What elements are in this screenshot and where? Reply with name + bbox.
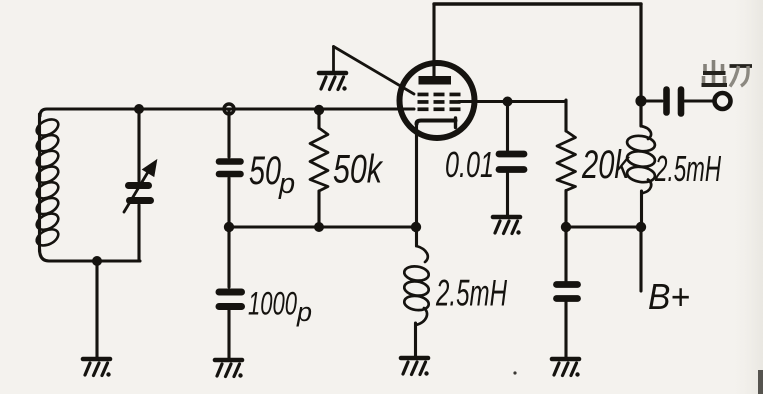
inductor L3 cathode choke 2.5mH bbox=[403, 246, 429, 356]
node: rail / C1 (ring) bbox=[224, 104, 234, 114]
label 50p bbox=[249, 149, 295, 200]
svg-text:2.5mH: 2.5mH bbox=[435, 273, 507, 314]
label 出力 (output) bbox=[702, 60, 753, 87]
wire: right bus bbox=[566, 225, 641, 228]
node: tank ground bbox=[92, 256, 102, 266]
wire: cathode lead bbox=[415, 122, 418, 246]
tube V1 plate bbox=[419, 76, 452, 85]
node: right bus / C4 bbox=[561, 222, 571, 232]
wire: suppressor diagonal to ground bbox=[334, 47, 415, 95]
capacitor C2 1000p stem top bbox=[227, 227, 230, 287]
variable capacitor VC1 arrow bbox=[124, 161, 156, 212]
ground: suppressor bbox=[319, 73, 347, 91]
inductor L1 tank coil bbox=[34, 114, 61, 251]
inductor L2 plate choke 2.5mH bbox=[626, 126, 656, 227]
variable capacitor VC1 plates bbox=[129, 186, 151, 201]
tube V1 grids bbox=[418, 93, 461, 112]
resistor R2 20k bbox=[557, 100, 576, 227]
svg-text:B+: B+ bbox=[648, 276, 690, 317]
variable capacitor VC1 stem top bbox=[137, 109, 140, 181]
capacitor C4 bypass stem top bbox=[564, 227, 567, 281]
ground: cathode choke bbox=[401, 358, 429, 376]
wire: B+ top rail bbox=[434, 2, 641, 5]
node: bus / cathode bbox=[411, 222, 421, 232]
wire: grid rail (top-left horizontal) bbox=[40, 109, 414, 116]
svg-text:1000: 1000 bbox=[248, 286, 297, 322]
wire: cathode bus bbox=[229, 225, 416, 228]
wire: ground stem from tank bottom bbox=[95, 261, 98, 357]
tube V1 envelope bbox=[400, 63, 475, 138]
capacitor C5 output coupling bbox=[641, 90, 713, 114]
svg-text:20k: 20k bbox=[581, 143, 630, 187]
output terminal bbox=[715, 93, 731, 109]
ground: C3 bbox=[493, 217, 521, 235]
capacitor C4 bypass stem bottom bbox=[564, 302, 567, 357]
svg-text:p: p bbox=[296, 297, 312, 327]
capacitor C1 50p stem bottom bbox=[227, 178, 230, 227]
node: rail / R1 bbox=[314, 105, 324, 115]
node: plate / choke bbox=[635, 95, 646, 106]
node: rail / VC1 bbox=[134, 104, 144, 114]
capacitor C3 0.01 stem top bbox=[506, 102, 509, 151]
ground: C4 bbox=[552, 359, 580, 377]
capacitor C1 50p stem top bbox=[227, 109, 230, 157]
tube V1 cathode bbox=[417, 118, 456, 128]
speck bbox=[513, 371, 516, 374]
ground: C2 bbox=[215, 360, 243, 378]
label 1000p bbox=[248, 286, 312, 328]
ground: tank bbox=[83, 359, 111, 377]
capacitor C4 bypass plates bbox=[557, 285, 578, 299]
node: right bus / B+ bbox=[636, 222, 646, 232]
wire: right drop from top rail bbox=[639, 4, 642, 126]
wire: screen wire bbox=[459, 100, 566, 103]
svg-text:50: 50 bbox=[249, 149, 281, 193]
svg-text:2.5mH: 2.5mH bbox=[654, 148, 721, 189]
resistor R1 50k bbox=[310, 111, 328, 227]
variable capacitor VC1 stem bottom bbox=[137, 205, 140, 261]
capacitor C2 1000p plates bbox=[219, 292, 242, 307]
capacitor C1 50p plates bbox=[219, 162, 241, 175]
wire: B+ lead bbox=[639, 227, 642, 291]
wire: plate lead bbox=[432, 4, 435, 76]
capacitor C3 0.01 stem bottom bbox=[506, 173, 509, 216]
capacitor C2 1000p stem bottom bbox=[227, 310, 230, 358]
wire: tank bottom bbox=[40, 249, 141, 261]
node: screen / C3 bbox=[503, 97, 513, 107]
svg-text:p: p bbox=[278, 168, 295, 200]
node: bus / R1 bbox=[314, 222, 324, 232]
node: bus / C2 bbox=[224, 222, 234, 232]
svg-text:0.01: 0.01 bbox=[445, 144, 494, 185]
svg-text:50k: 50k bbox=[333, 148, 384, 192]
capacitor C3 0.01 plates bbox=[499, 154, 524, 170]
